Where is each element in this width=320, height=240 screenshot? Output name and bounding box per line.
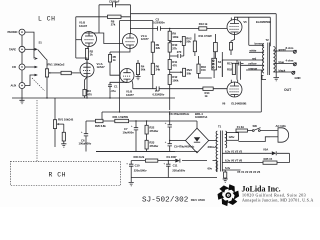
resistor R25 heater (263, 157, 277, 164)
wire bias column (169, 29, 171, 111)
tube V2:A 12AT7 (123, 34, 150, 49)
capacitor C7 filter (123, 121, 139, 152)
tube V2:B 12AT7 (120, 69, 134, 97)
svg-text:V6: V6 (222, 101, 226, 105)
svg-text:0.22/630v: 0.22/630v (153, 21, 165, 25)
capacitor C10 (126, 161, 147, 183)
resistor R20 (95, 119, 106, 128)
wire R5 to V2B grid (110, 62, 120, 75)
svg-text:S1: S1 (39, 41, 43, 45)
svg-text:12AT7: 12AT7 (126, 93, 134, 97)
wire green secondary 8 ohm (273, 46, 294, 52)
wire white primary (249, 49, 265, 53)
potentiometer RV1 volume (45, 62, 64, 77)
wire J1 to switch (25, 32, 34, 58)
wire wiper to grid resistor (53, 72, 62, 74)
junction dots on bus (46, 97, 47, 98)
bias divider column R11 (168, 60, 178, 70)
resistor R11b 47/1W (193, 34, 212, 57)
resistor R15b above S2 (214, 34, 218, 58)
svg-text:V5A: V5A (263, 148, 268, 152)
junction dot C7 (135, 120, 136, 121)
svg-text:EL34/6550B: EL34/6550B (231, 101, 246, 105)
svg-text:C9 470u/400Vdc: C9 470u/400Vdc (174, 144, 195, 148)
primary box 120v (227, 133, 239, 141)
jack J3 CD (12, 64, 25, 70)
svg-text:220u/160v: 220u/160v (134, 168, 147, 172)
svg-text:R20 6.8k: R20 6.8k (95, 124, 106, 128)
svg-text:12AT7: 12AT7 (141, 37, 149, 41)
wire switch common to volume pot (46, 59, 47, 69)
bias divider column R10 (168, 43, 178, 52)
wire V1B cathode to R2 (87, 47, 89, 49)
wire fuse to switch (248, 130, 253, 132)
resistor R14 lower grid stopper (203, 87, 213, 98)
output transformer T2 (262, 38, 275, 80)
wire yellow primary (241, 62, 265, 66)
coupling line upper (to V5 grid) (130, 28, 227, 30)
capacitor C8a filter (165, 112, 190, 141)
svg-text:300mA: 300mA (208, 145, 217, 149)
svg-text:270: 270 (177, 50, 182, 54)
resistor R22 heater ref (223, 170, 228, 182)
wire R6 bottom (152, 75, 154, 89)
pot RV3 bias (170, 68, 193, 76)
svg-text:V5: V5 (243, 20, 247, 24)
svg-text:black: black (279, 68, 286, 72)
junction dot bias (168, 160, 169, 161)
svg-text:C11: C11 (173, 164, 178, 168)
wire wiper to R19 (63, 124, 65, 132)
junction dot bias column top (169, 28, 170, 29)
capacitor C11 (163, 161, 185, 178)
resistor R19 (62, 132, 65, 141)
svg-text:S3: S3 (218, 65, 222, 69)
wire J4 to switch (25, 75, 36, 86)
svg-text:27k: 27k (111, 23, 116, 27)
tube V1:B 12AX7 (input left) (79, 21, 97, 47)
svg-text:brown: brown (255, 42, 263, 46)
wire V6 plate up to red row (236, 60, 238, 80)
svg-text:PHONO: PHONO (8, 30, 19, 34)
resistor R5 (108, 55, 116, 63)
resistor R21 (113, 115, 129, 123)
heater diode D2 (272, 151, 276, 155)
svg-text:22k: 22k (156, 46, 161, 50)
svg-text:100k: 100k (172, 78, 178, 82)
svg-text:12AX7: 12AX7 (79, 24, 88, 28)
capacitor C6 V6 cathode (236, 62, 244, 66)
tube V5 EL34/6550B upper output (227, 18, 271, 35)
switch S2 mode (212, 58, 222, 70)
resistor R7 plate load (151, 42, 160, 52)
wire R5 top (109, 52, 111, 55)
svg-text:OUT: OUT (284, 88, 292, 92)
wire left of V6 column (221, 52, 223, 77)
jack 4 ohm (293, 63, 296, 66)
jack J4 AUX (11, 83, 26, 89)
capacitor C9a filter (165, 140, 195, 152)
wire feedback right node (121, 5, 131, 34)
wire V5 cathode network (231, 35, 235, 43)
jack J1 PHONO (8, 29, 26, 35)
svg-text:120v: 120v (229, 135, 235, 139)
svg-text:150: 150 (201, 68, 206, 72)
heater row A (222, 148, 289, 163)
svg-text:56k: 56k (141, 68, 146, 72)
svg-text:100u/400v: 100u/400v (79, 142, 92, 146)
wire R4 top (137, 60, 139, 64)
switch S1 contacts (35, 48, 37, 76)
svg-text:white: white (249, 49, 257, 53)
resistor R6 (151, 63, 160, 74)
svg-text:CD: CD (12, 65, 16, 69)
svg-text:blue: blue (279, 60, 285, 64)
B+ rail front end (120, 20, 153, 22)
wire V5 plate to transformer (235, 17, 271, 46)
svg-text:S2: S2 (218, 60, 222, 64)
R CH dashed box (11, 161, 121, 185)
svg-text:1k: 1k (90, 53, 93, 57)
resistor R23 (145, 140, 159, 149)
resistor R2 cathode (85, 49, 93, 60)
svg-text:TAPE: TAPE (9, 47, 16, 51)
svg-text:1k: 1k (113, 58, 116, 62)
svg-text:T1: T1 (218, 124, 222, 128)
svg-text:470: 470 (87, 92, 92, 96)
diode D1 (167, 155, 180, 162)
resistor R15 V5 cathode (229, 43, 232, 56)
svg-text:T2: T2 (266, 38, 270, 42)
wire V1A cathode to R3 to bus (85, 77, 88, 98)
svg-text:4 ohm: 4 ohm (286, 58, 294, 62)
svg-text:EL34/6550B: EL34/6550B (256, 20, 271, 24)
svg-text:12AX7: 12AX7 (97, 65, 106, 69)
wire RV2 bottom to C9 node (170, 46, 184, 57)
svg-text:D1 4007: D1 4007 (167, 155, 178, 159)
wire V2B cathode to C1 (110, 82, 127, 85)
bias rail (131, 161, 217, 172)
heater row C (222, 166, 260, 174)
wire V1B plate coupling to V2A grid (84, 33, 123, 44)
svg-text:10u/450v: 10u/450v (123, 130, 135, 134)
wire V1B grid to feedback column (76, 39, 82, 41)
ground below C10 (129, 182, 134, 185)
svg-text:R11 47/1W: R11 47/1W (199, 34, 213, 38)
wire V2B plate down to coupling line (131, 81, 134, 89)
svg-text:R18: R18 (227, 67, 232, 71)
resistor R22 (145, 125, 159, 134)
dashed link switch (32, 78, 45, 91)
resistor grid stopper (61, 71, 71, 74)
fuse F1 (236, 125, 248, 132)
bias divider column R12 (168, 75, 179, 85)
feedback column wire (75, 17, 77, 58)
bias divider column R9 (168, 31, 179, 40)
ground bus main (12, 97, 175, 99)
pot RV2 bias (170, 36, 192, 45)
switch SW1 (252, 124, 260, 131)
svg-text:R CH: R CH (49, 172, 67, 179)
feedback line from secondary (131, 14, 277, 51)
wire jack ground column (21, 35, 23, 98)
wire blue secondary 4 ohm (273, 58, 294, 64)
svg-text:1N4007x4: 1N4007x4 (195, 115, 208, 119)
svg-text:50k: 50k (187, 71, 192, 75)
wire R22 R23 column (146, 121, 148, 152)
wire V2A cathode to R5 node (110, 49, 130, 53)
svg-text:F1 3A: F1 3A (237, 125, 244, 129)
wire orange primary (246, 66, 264, 70)
PSU ground bus (96, 151, 175, 153)
svg-text:C8 68pF: C8 68pF (109, 0, 120, 4)
wire bridge right to T1 (208, 141, 218, 150)
svg-text:220u/160v: 220u/160v (172, 168, 185, 172)
ground below R19 (61, 141, 66, 147)
wire V1A plate to feedback column (76, 58, 87, 63)
wire S2 stubs (213, 52, 215, 78)
junction dots PSU (169, 111, 170, 112)
wire plug return to primary (239, 137, 271, 142)
wire black secondary 0 (273, 68, 291, 72)
capacitor C1 .47u (108, 85, 118, 98)
wire bias return (131, 177, 217, 179)
wire R16 stubs (199, 56, 212, 78)
svg-text:.47u: .47u (110, 89, 116, 93)
jack 0 ohm (292, 71, 301, 80)
svg-text:6.3v V0 V7 V8: 6.3v V0 V7 V8 (225, 159, 243, 163)
svg-text:REV 9508: REV 9508 (191, 198, 205, 202)
svg-text:60v: 60v (208, 166, 213, 170)
svg-text:R21 1.5k/5W: R21 1.5k/5W (113, 115, 129, 119)
svg-text:24k: 24k (156, 68, 161, 72)
hum pot RV4 (53, 118, 73, 129)
svg-text:50k: 50k (186, 40, 191, 44)
svg-text:red: red (252, 56, 256, 60)
switch S1 arm (38, 50, 46, 59)
svg-text:100k: 100k (172, 35, 178, 39)
wire resistor to V1A grid (71, 72, 80, 74)
wire red primary B+ (222, 56, 264, 60)
svg-text:RV1 10kΩ-B: RV1 10kΩ-B (58, 118, 73, 122)
JoLida logo pinwheel (216, 184, 241, 207)
svg-text:SJ-502/302: SJ-502/302 (142, 197, 189, 205)
svg-text:AUX: AUX (11, 84, 17, 88)
capacitor C4 (153, 86, 165, 96)
feedback network R8 (108, 15, 122, 27)
resistor R18 V6 cathode (227, 61, 236, 74)
svg-text:C10: C10 (135, 164, 140, 168)
svg-text:orange: orange (248, 66, 257, 70)
capacitor C6 filter (79, 121, 92, 152)
AC inlet plug (270, 124, 289, 142)
wire feedback left node (76, 5, 108, 33)
wire J3 to switch (25, 66, 36, 68)
resistor R3 cathode (83, 89, 92, 96)
wire B+ red drop to PSU (221, 60, 223, 77)
wire bridge bottom to gnd bus (96, 152, 197, 153)
ground below R4 (135, 75, 140, 80)
svg-text:8 ohm: 8 ohm (286, 46, 294, 50)
wire switch to plug (260, 130, 277, 132)
svg-text:RV1 100kΩx2: RV1 100kΩx2 (48, 62, 65, 66)
svg-text:470: 470 (172, 63, 177, 67)
power transformer T1 (216, 124, 227, 171)
resistor R24 bias (134, 155, 158, 162)
wire R2 to ground bus (86, 60, 88, 99)
bridge rectifier BR1-4 (186, 112, 209, 153)
svg-text:L CH: L CH (38, 16, 56, 23)
heater row B (222, 159, 289, 163)
junction dot feedback tap (276, 50, 277, 51)
ground at secondary (273, 51, 279, 81)
svg-text:47k/2w: 47k/2w (149, 129, 159, 133)
jack J2 TAPE (9, 46, 25, 52)
jack 8 ohm (293, 50, 296, 53)
wire B+ drop to PSU (119, 21, 121, 113)
svg-text:6.3v: 6.3v (225, 166, 231, 170)
dashed link to R CH (36, 100, 38, 161)
capacitor C3 (153, 17, 165, 30)
wire pot bottom to ground bus (46, 77, 48, 98)
tube V6 EL34/6550B lower output (222, 80, 246, 106)
wire brown primary (249, 42, 264, 46)
svg-text:V5 V1 V2 V3 V4 V6: V5 V1 V2 V3 V4 V6 (237, 170, 261, 174)
svg-text:R25 15: R25 15 (264, 157, 273, 161)
resistor R4 (136, 63, 145, 74)
svg-text:AC 110v: AC 110v (276, 124, 287, 128)
wire R7 column (152, 21, 154, 64)
capacitor C9 (177, 50, 182, 58)
wire cap node to bridge (170, 140, 186, 142)
wire bridge top to B+ (196, 121, 198, 128)
wire J2 to switch (25, 48, 36, 50)
PSU B+ line (102, 70, 261, 121)
feedback network C8 (99, 0, 131, 7)
wire PSU left branch (86, 120, 197, 122)
svg-text:6.3v V1 V2 V3: 6.3v V1 V2 V3 (225, 149, 243, 153)
svg-text:C8 470u/400Vdc: C8 470u/400Vdc (169, 112, 190, 116)
resistor R16 (197, 64, 207, 73)
svg-text:R17: R17 (227, 61, 232, 65)
svg-text:0.22/630v: 0.22/630v (153, 93, 165, 97)
ground symbol at bus left (19, 98, 24, 104)
svg-text:47k/2w: 47k/2w (149, 144, 159, 148)
coupling line lower (to V6 grid) (133, 88, 228, 90)
svg-text:R13 1k: R13 1k (199, 22, 208, 26)
svg-text:R24 8.2k: R24 8.2k (134, 155, 145, 159)
tube V1:A 12AX7 (lower left) (80, 62, 105, 77)
hum pot RV4 column (54, 98, 56, 147)
svg-text:GND: GND (295, 76, 301, 80)
wire V6 screen up to yellow row (240, 65, 242, 80)
svg-text:SW: SW (253, 124, 258, 128)
svg-text:yellow: yellow (248, 62, 257, 66)
resistor R13 grid stopper (199, 22, 208, 30)
